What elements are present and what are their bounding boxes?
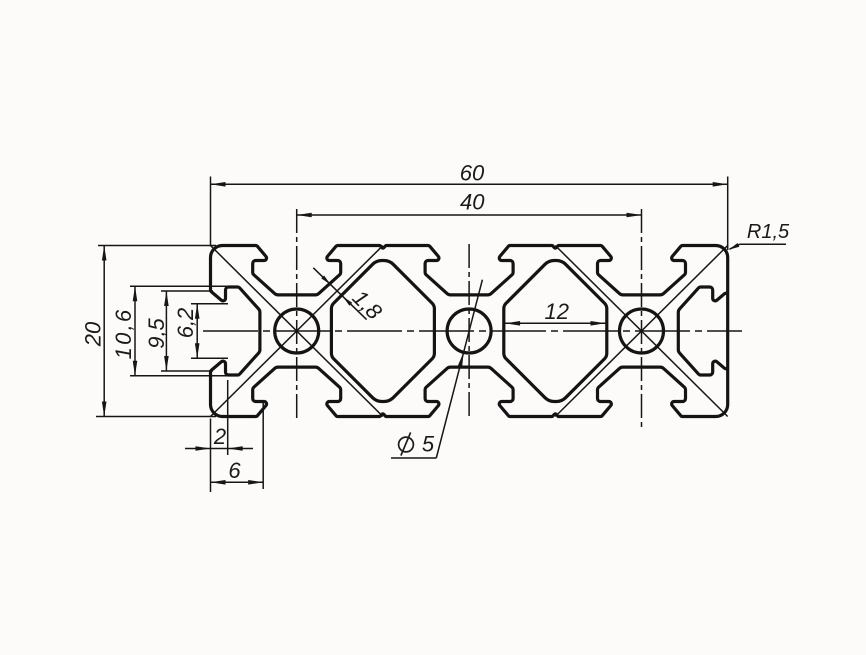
svg-text:6: 6 — [228, 458, 241, 483]
svg-text:12: 12 — [545, 299, 569, 324]
svg-text:9,5: 9,5 — [144, 317, 169, 348]
svg-text:40: 40 — [460, 190, 485, 215]
svg-text:20: 20 — [81, 321, 106, 347]
svg-text:R1,5: R1,5 — [747, 221, 790, 243]
svg-text:6,2: 6,2 — [173, 308, 198, 339]
svg-text:5: 5 — [422, 432, 435, 457]
svg-text:2: 2 — [213, 424, 226, 449]
svg-text:10,6: 10,6 — [111, 308, 136, 360]
svg-text:60: 60 — [460, 161, 485, 186]
